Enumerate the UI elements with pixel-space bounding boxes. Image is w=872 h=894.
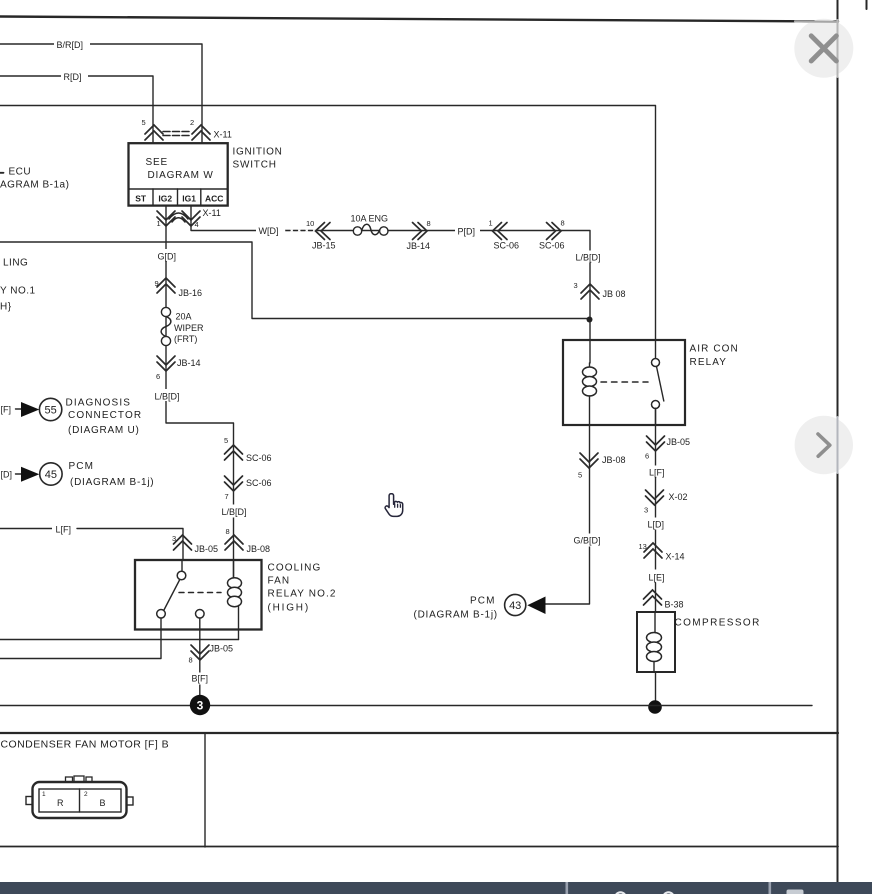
compressor box (637, 612, 675, 672)
connector X-11 pin 1 (157, 211, 176, 228)
svg-text:X-02: X-02 (669, 492, 688, 502)
svg-text:13: 13 (639, 542, 647, 551)
svg-text:G/B[D]: G/B[D] (574, 536, 601, 546)
svg-text:SC-06: SC-06 (246, 453, 272, 463)
svg-text:L/B[D]: L/B[D] (155, 392, 180, 402)
svg-text:L[F]: L[F] (56, 525, 72, 535)
svg-text:20A: 20A (176, 312, 192, 322)
svg-text:SC-06: SC-06 (494, 241, 520, 251)
svg-text:JB-08: JB-08 (602, 455, 626, 465)
svg-text:B-38: B-38 (665, 600, 684, 610)
pcm arrow (21, 467, 39, 482)
label L/B[D] left (152, 389, 184, 402)
connector X-11 pin 2 (190, 118, 210, 140)
label L[D] (645, 518, 668, 530)
svg-text:4: 4 (195, 220, 199, 229)
fuse 20A WIPER (FRT) (161, 307, 204, 345)
svg-text:B/R[D]: B/R[D] (57, 40, 84, 50)
connector JB-08 pin 5 below (578, 453, 626, 480)
svg-text:[F]: [F] (1, 405, 12, 415)
bottom toolbar (0, 882, 872, 894)
svg-text:DIAGRAM W: DIAGRAM W (148, 170, 214, 181)
diagnosis connector circle 55 (39, 398, 61, 420)
label AIR CON RELAY (690, 344, 739, 369)
label IGNITION SWITCH (233, 147, 283, 171)
label PCM (DIAGRAM B-1j) (69, 461, 155, 488)
svg-text:L[D]: L[D] (648, 520, 665, 530)
right border line (837, 0, 839, 882)
connector JB-14 pin 6 (156, 356, 201, 381)
svg-text:9: 9 (155, 279, 159, 288)
label PCM (DIAGRAM B-1j) right (414, 596, 498, 621)
wire B/R[D] (0, 44, 202, 143)
svg-text:SC-06: SC-06 (246, 478, 272, 488)
pcm circle 43 (505, 594, 526, 615)
relay 2 switch contacts (157, 560, 204, 618)
svg-text:X-11: X-11 (203, 208, 221, 218)
connector JB-08 pin 8 (225, 527, 270, 554)
svg-text:PCM: PCM (69, 461, 95, 472)
svg-text:JB-14: JB-14 (177, 358, 201, 368)
svg-text:IG1: IG1 (182, 194, 196, 204)
svg-text:2: 2 (84, 791, 88, 798)
label L/B[D] mid (219, 505, 251, 518)
wire R[D] (0, 76, 153, 143)
svg-text:DIAGNOSIS: DIAGNOSIS (66, 398, 131, 409)
svg-text:L/B[D]: L/B[D] (576, 253, 601, 263)
svg-text:SWITCH: SWITCH (233, 160, 277, 171)
connector JB-08 pin 3 (574, 281, 626, 299)
svg-text:ST: ST (135, 194, 147, 204)
label X-11 bottom (203, 208, 221, 218)
wire L[F] left (0, 523, 183, 561)
svg-text:H}: H} (0, 302, 12, 313)
pcm fragment wire (1, 470, 22, 480)
svg-text:6: 6 (645, 452, 649, 461)
top border line (0, 17, 838, 22)
label L[F] right (647, 466, 670, 478)
wire relay2 output (199, 618, 201, 695)
connector X-11 tie dashes (163, 132, 189, 136)
connector X-02 pin 3 (644, 490, 688, 515)
label COOLING FAN RELAY NO.2 (HIGH) (268, 563, 337, 614)
svg-text:JB-14: JB-14 (407, 241, 431, 251)
svg-text:1: 1 (42, 791, 46, 798)
connector X-11 pin 5 (142, 118, 164, 140)
diagnosis connector arrow (21, 402, 39, 417)
connector SC-06 pin 5 (224, 436, 272, 463)
svg-text:R: R (57, 798, 64, 808)
svg-text:5: 5 (142, 118, 146, 127)
svg-text:JB 08: JB 08 (603, 289, 626, 299)
svg-text:P[D]: P[D] (458, 227, 476, 237)
close button (794, 19, 853, 78)
svg-text:SEE: SEE (146, 157, 168, 168)
label G/B[D] (571, 534, 607, 547)
svg-text:3: 3 (644, 506, 648, 515)
connector X-11 pin 4 (182, 211, 200, 229)
svg-text:1: 1 (157, 219, 161, 228)
svg-text:W[D]: W[D] (259, 226, 279, 236)
wire bus y105 to air con relay switch (0, 106, 656, 363)
svg-text:RELAY NO.2: RELAY NO.2 (268, 589, 337, 600)
compressor coil (647, 612, 662, 672)
wire aircon coil to pcm43 (546, 425, 590, 604)
svg-text:X-11: X-11 (214, 130, 232, 140)
svg-text:CONDENSER FAN MOTOR [F] B: CONDENSER FAN MOTOR [F] B (1, 739, 170, 751)
hand cursor (385, 494, 403, 517)
relay 2 coil (228, 560, 242, 640)
air con relay coil (583, 363, 597, 425)
svg-text:(DIAGRAM B-1j): (DIAGRAM B-1j) (70, 477, 154, 488)
pcm circle 45 (40, 463, 62, 485)
svg-text:LING: LING (3, 258, 28, 269)
svg-text:[D]: [D] (1, 470, 13, 480)
svg-text:6: 6 (156, 372, 160, 381)
svg-text:R[D]: R[D] (64, 72, 82, 82)
svg-text:ECU: ECU (9, 167, 32, 178)
cooling fan relay no.2 box (135, 560, 262, 630)
svg-text:10: 10 (306, 219, 314, 228)
wire feed y242 to junction (0, 242, 590, 319)
ignition switch inner text (146, 157, 214, 181)
pcm43 arrow (527, 597, 545, 615)
label R[D] (61, 70, 88, 82)
wire G[D] branch (166, 206, 234, 577)
diagnosis connector fragment wire (1, 405, 22, 415)
label L[E] (646, 570, 669, 583)
svg-text:AIR CON: AIR CON (690, 344, 739, 355)
svg-text:COMPRESSOR: COMPRESSOR (675, 618, 761, 629)
svg-text:3: 3 (574, 281, 578, 290)
label X-11 top (214, 130, 232, 140)
svg-text:JB-16: JB-16 (179, 288, 203, 298)
connector SC-06 pin 1 (489, 219, 520, 251)
svg-text:WIPER: WIPER (174, 323, 204, 333)
svg-text:ACC: ACC (205, 194, 223, 204)
label L/B[D] right (573, 251, 605, 263)
svg-text:5: 5 (578, 471, 582, 480)
svg-text:X-14: X-14 (666, 552, 685, 562)
svg-text:JB-15: JB-15 (312, 241, 336, 251)
svg-text:8: 8 (226, 527, 230, 536)
svg-text:L[F]: L[F] (649, 468, 665, 478)
junction dot (587, 317, 593, 323)
svg-text:8: 8 (189, 656, 193, 665)
section line y733 (0, 732, 838, 734)
svg-text:G[D]: G[D] (158, 252, 177, 262)
svg-text:8: 8 (427, 219, 431, 228)
connector SC-06 pin 8 (539, 219, 565, 251)
wire aircon switch chain (655, 409, 657, 702)
connector X-14 pin 13 (639, 542, 685, 562)
svg-text:(HIGH): (HIGH) (268, 603, 310, 614)
svg-text:5: 5 (224, 436, 228, 445)
svg-text:10A ENG: 10A ENG (351, 214, 389, 224)
svg-text:JB-05: JB-05 (210, 644, 234, 654)
svg-text:1: 1 (489, 219, 493, 228)
svg-text:L/B[D]: L/B[D] (222, 507, 247, 517)
svg-text:(DIAGRAM U): (DIAGRAM U) (68, 425, 140, 436)
svg-text:FAN: FAN (268, 576, 291, 587)
svg-text:JB-05: JB-05 (195, 544, 219, 554)
connector JB-05 pin 3 (172, 534, 218, 554)
svg-text:RELAY: RELAY (690, 357, 728, 368)
label B[F] (189, 673, 212, 685)
svg-text:43: 43 (509, 600, 521, 612)
ignition switch terminals (135, 194, 223, 204)
label W[D] (256, 224, 285, 237)
svg-text:CONNECTOR: CONNECTOR (68, 410, 142, 421)
svg-text:B[F]: B[F] (192, 674, 209, 684)
label G[D] (154, 249, 183, 262)
label ECU fragment (0, 167, 69, 191)
svg-text:B: B (100, 798, 106, 808)
junction dot bottom (648, 700, 662, 714)
svg-text:IGNITION: IGNITION (233, 147, 283, 158)
fuse 10A ENG (351, 214, 389, 236)
connector JB-05 pin 8 bottom (189, 644, 234, 665)
air con relay box (563, 340, 685, 425)
connector JB-05 pin 6 (645, 436, 690, 461)
svg-text:IG2: IG2 (158, 194, 172, 204)
svg-text:45: 45 (45, 469, 57, 481)
svg-text:JB-05: JB-05 (667, 437, 691, 447)
bus line y705 (0, 705, 812, 707)
ignition switch box (129, 143, 228, 205)
connector SC-06 pin 7 (225, 476, 272, 501)
svg-text:3: 3 (197, 699, 204, 713)
svg-text:7: 7 (225, 492, 229, 501)
svg-text:PCM: PCM (470, 596, 496, 607)
svg-text:JB-08: JB-08 (247, 544, 271, 554)
wire W[D] branch (191, 206, 590, 363)
air con relay switch (652, 359, 664, 426)
label cooling relay no.1 fragments (0, 258, 36, 313)
svg-text:(DIAGRAM B-1j): (DIAGRAM B-1j) (414, 610, 498, 621)
next button (795, 416, 853, 474)
svg-text:AGRAM B-1a): AGRAM B-1a) (0, 180, 69, 191)
connector B-38 (644, 590, 684, 610)
svg-text:L[E]: L[E] (649, 573, 665, 583)
section line y846 (0, 846, 838, 848)
svg-text:55: 55 (44, 405, 56, 417)
connector JB-16 pin 9 (155, 278, 203, 298)
air con relay tie dash (601, 381, 648, 383)
label DIAGNOSIS CONNECTOR (DIAGRAM U) (66, 398, 143, 437)
label B/R[D] (54, 38, 90, 50)
connector JB-14 pin 8 (407, 219, 431, 251)
label COMPRESSOR (675, 618, 761, 629)
svg-text:2: 2 (190, 118, 194, 127)
svg-text:8: 8 (561, 219, 565, 228)
svg-text:Y NO.1: Y NO.1 (0, 286, 36, 297)
svg-text:(FRT): (FRT) (174, 334, 197, 344)
wire relay2 coil return (0, 639, 239, 641)
svg-text:3: 3 (172, 534, 176, 543)
label P[D] (455, 225, 480, 237)
label CONDENSER FAN MOTOR (1, 739, 170, 751)
connector X-11 tie arcs (169, 213, 188, 222)
condenser fan motor connector (26, 776, 133, 818)
node 3 circle (190, 695, 210, 715)
connector JB-15 pin 10 (306, 219, 336, 251)
svg-text:SC-06: SC-06 (539, 241, 565, 251)
top-right tick mark (866, 0, 868, 9)
section divider x205 (204, 733, 206, 847)
relay 2 tie dash (179, 592, 221, 594)
wire relay2 lower contact return (0, 618, 161, 659)
svg-text:COOLING: COOLING (268, 563, 322, 574)
